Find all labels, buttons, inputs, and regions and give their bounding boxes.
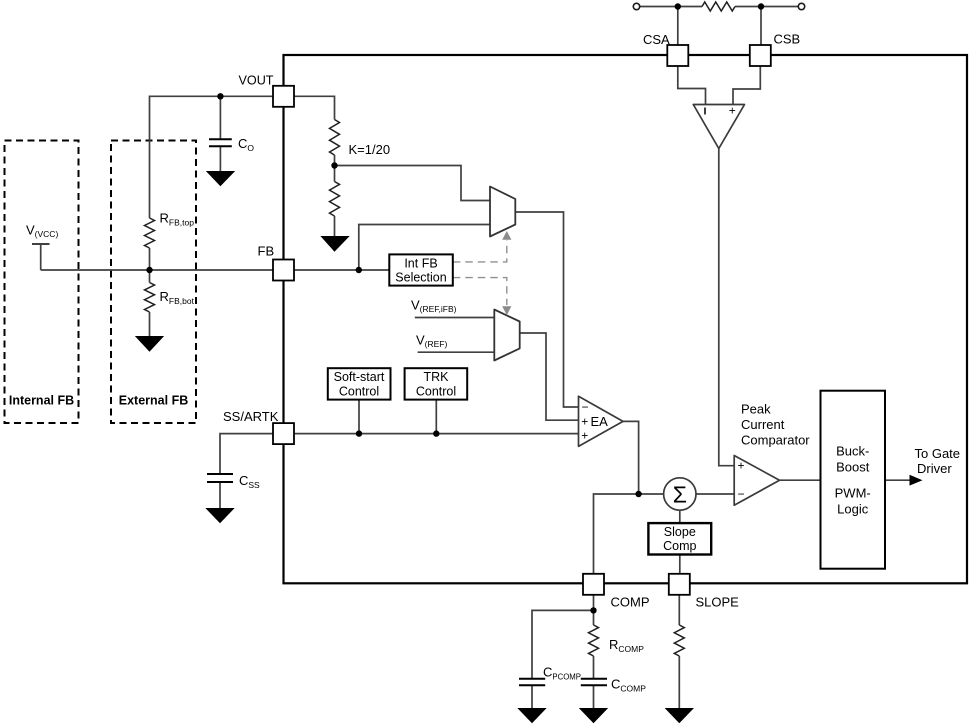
svg-text:+: +	[581, 415, 588, 429]
svg-text:Int FB: Int FB	[404, 256, 437, 270]
svg-text:CSB: CSB	[774, 32, 801, 47]
svg-text:To Gate: To Gate	[915, 446, 961, 461]
svg-text:Soft-start: Soft-start	[334, 370, 385, 384]
svg-text:SLOPE: SLOPE	[696, 595, 740, 610]
svg-text:−: −	[582, 400, 589, 414]
svg-text:Logic: Logic	[837, 502, 869, 517]
svg-text:Slope: Slope	[664, 525, 696, 539]
svg-text:Internal FB: Internal FB	[9, 394, 74, 408]
svg-text:TRK: TRK	[424, 370, 450, 384]
svg-text:VOUT: VOUT	[239, 74, 274, 88]
svg-text:Control: Control	[339, 384, 379, 398]
svg-text:Current: Current	[741, 417, 785, 432]
svg-text:+: +	[581, 429, 588, 443]
svg-text:Peak: Peak	[741, 402, 771, 417]
svg-text:Σ: Σ	[673, 481, 687, 507]
svg-text:SS/ARTK: SS/ARTK	[223, 409, 279, 424]
svg-text:Driver: Driver	[917, 461, 952, 476]
svg-text:EA: EA	[591, 414, 609, 429]
svg-text:Comparator: Comparator	[741, 433, 810, 448]
svg-text:−: −	[738, 487, 745, 501]
svg-text:Control: Control	[416, 384, 456, 398]
svg-text:+: +	[729, 104, 736, 118]
svg-text:Comp: Comp	[663, 539, 696, 553]
svg-text:CSA: CSA	[643, 32, 670, 47]
svg-text:Selection: Selection	[395, 271, 446, 285]
svg-text:K=1/20: K=1/20	[349, 142, 391, 157]
svg-text:Boost: Boost	[836, 460, 870, 475]
svg-text:FB: FB	[258, 244, 275, 259]
svg-text:COMP: COMP	[611, 595, 650, 610]
svg-text:External FB: External FB	[119, 394, 188, 408]
svg-text:Buck-: Buck-	[836, 444, 869, 459]
svg-text:PWM-: PWM-	[835, 486, 871, 501]
svg-text:+: +	[738, 458, 745, 472]
